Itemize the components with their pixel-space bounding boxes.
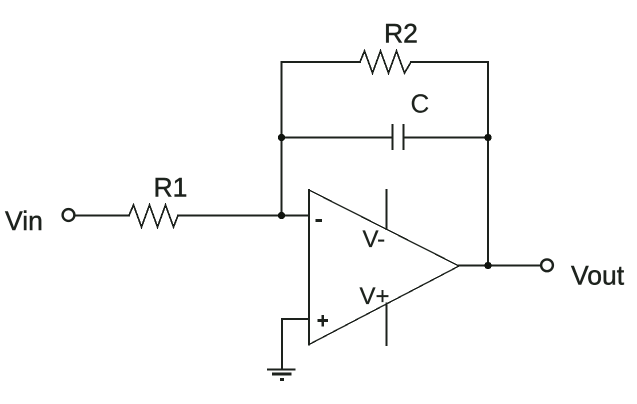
wire top rail right bbox=[411, 61, 488, 63]
capacitor C right plate bbox=[403, 124, 405, 150]
wire non-inverting input vertical to ground bbox=[281, 319, 283, 369]
svg-text:Vout: Vout bbox=[571, 261, 625, 291]
wire capacitor right bbox=[404, 137, 489, 139]
op-amp left edge overdraw bbox=[308, 190, 310, 345]
wire left vertical (feedback left leg) bbox=[281, 62, 283, 216]
terminal Vout open circle bbox=[541, 259, 553, 271]
wire capacitor left bbox=[282, 137, 393, 139]
op-amp U1 triangle bbox=[309, 190, 459, 345]
svg-text:V-: V- bbox=[363, 226, 386, 253]
wire right vertical (feedback right leg) bbox=[487, 62, 489, 266]
wire top rail left bbox=[282, 61, 361, 63]
svg-text:R1: R1 bbox=[154, 173, 188, 203]
junction dot output bbox=[484, 262, 491, 269]
resistor R1 bbox=[129, 205, 178, 227]
svg-text:R2: R2 bbox=[384, 19, 418, 49]
junction dot capacitor left bbox=[278, 134, 285, 141]
wire Vin to R1 bbox=[75, 215, 129, 217]
junction dot inverting input bbox=[278, 212, 285, 219]
pin V- supply line bbox=[385, 190, 387, 229]
wire R1 to inverting input bbox=[178, 215, 309, 217]
op-amp inverting input minus sign bbox=[315, 219, 321, 222]
wire op-amp output bbox=[459, 265, 541, 267]
resistor R2 bbox=[360, 51, 411, 73]
pin V+ supply line bbox=[385, 304, 387, 346]
ground bottom dash bbox=[280, 378, 284, 381]
wire non-inverting input horizontal bbox=[282, 318, 309, 320]
junction dot capacitor right bbox=[484, 134, 491, 141]
capacitor C left plate bbox=[392, 124, 394, 150]
op-amp non-inverting input plus sign bbox=[318, 319, 328, 322]
svg-text:C: C bbox=[411, 89, 430, 119]
terminal Vin open circle bbox=[63, 209, 75, 221]
svg-text:V+: V+ bbox=[360, 283, 390, 310]
ground top bar bbox=[268, 368, 295, 370]
svg-text:Vin: Vin bbox=[5, 206, 43, 236]
ground middle bar bbox=[274, 373, 291, 376]
